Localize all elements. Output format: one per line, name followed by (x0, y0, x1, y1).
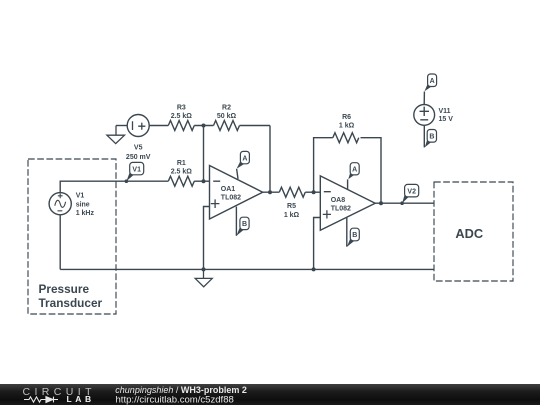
wire V1 top lead and row to R1 (60, 181, 168, 192)
svg-text:R3: R3 (177, 105, 186, 112)
svg-text:OA1: OA1 (221, 186, 236, 193)
wire OA8 A-flag pin stub (347, 179, 349, 189)
svg-text:R2: R2 (222, 105, 231, 112)
wire OA8 B-flag pin stub (346, 218, 348, 247)
supply flag B at V11 (425, 130, 437, 148)
junction node ground rail at OA8 (312, 267, 316, 271)
dashed box Pressure Transducer (28, 159, 116, 314)
svg-text:1 kHz: 1 kHz (76, 210, 95, 217)
svg-text:Transducer: Transducer (39, 296, 103, 310)
wire OA1 output to R5 (263, 191, 280, 193)
svg-text:V11: V11 (439, 108, 451, 115)
voltage source V1 circle (sine) (49, 193, 71, 215)
svg-text:A: A (242, 155, 247, 162)
wire V5 left lead (116, 125, 127, 127)
junction node OA8 inverting input (312, 190, 316, 194)
svg-text:R1: R1 (177, 160, 186, 167)
op-amp OA8 input polarity marks (323, 192, 331, 219)
svg-text:R6: R6 (342, 114, 351, 121)
junction node ground rail at OA1 (202, 267, 206, 271)
voltage source V5 circle (127, 115, 149, 137)
svg-text:R5: R5 (287, 203, 296, 210)
svg-text:B: B (242, 221, 247, 228)
junction node R1/summing (202, 179, 206, 183)
resistor R5 (279, 187, 305, 197)
svg-text:sine: sine (76, 201, 90, 208)
wire R2 to feedback corner (240, 125, 271, 127)
svg-text:V2: V2 (407, 188, 416, 195)
svg-text:250 mV: 250 mV (126, 154, 151, 161)
junction node OA1 output (268, 190, 272, 194)
wire V11 top stub (423, 92, 425, 105)
svg-text:A: A (430, 78, 435, 85)
dashed box ADC (434, 182, 513, 281)
footer bar (0, 384, 540, 405)
svg-text:ADC: ADC (455, 226, 483, 241)
svg-text:V5: V5 (134, 145, 143, 152)
wire feedback down to OA1 output (269, 126, 271, 193)
svg-text:TL082: TL082 (331, 205, 351, 212)
wire V11 bottom stub (423, 125, 425, 147)
svg-text:OA8: OA8 (331, 197, 346, 204)
wire V1 bottom lead (59, 215, 61, 270)
resistor R1 (168, 176, 194, 186)
wire R5 to OA8 inverting input (305, 191, 320, 193)
wire R1 to OA1 inverting input (194, 180, 209, 182)
ground at V5 (107, 126, 125, 144)
wire OA8 output to ADC (375, 202, 434, 204)
wire R6 feedback right leg (361, 138, 382, 204)
wire OA1 A-flag pin stub (237, 169, 238, 179)
op-amp OA8 (320, 176, 375, 230)
svg-text:2.5 kΩ: 2.5 kΩ (171, 168, 193, 175)
supply flag A at OA1 (237, 151, 250, 168)
wire OA8 noninverting input to ground rail (314, 218, 321, 270)
op-amp OA1 input polarity marks (211, 181, 220, 208)
junction node R3/R2 (202, 124, 206, 128)
svg-text:LAB: LAB (67, 394, 95, 404)
resistor R2 (214, 121, 240, 131)
wire OA1 B-flag pin stub (235, 207, 237, 236)
wire R6 feedback left leg (314, 138, 333, 193)
svg-text:50 kΩ: 50 kΩ (217, 113, 237, 120)
node flag V2 (400, 184, 418, 205)
svg-text:V1: V1 (76, 192, 85, 199)
svg-text:http://circuitlab.com/c5zdf88: http://circuitlab.com/c5zdf88 (116, 394, 234, 405)
resistor R3 (168, 121, 194, 131)
voltage source V5 polarity marks (133, 121, 146, 130)
svg-text:15 V: 15 V (439, 116, 454, 123)
voltage source V11 circle (414, 105, 435, 126)
node flag V1 (125, 162, 144, 183)
svg-text:B: B (429, 134, 434, 141)
svg-text:2.5 kΩ: 2.5 kΩ (171, 113, 193, 120)
voltage source V1 sine wave and polarity (55, 193, 66, 210)
wire summing node vertical (203, 126, 205, 182)
resistor R6 (333, 133, 359, 143)
svg-text:1 kΩ: 1 kΩ (339, 123, 355, 130)
supply flag A at OA8 (348, 163, 359, 180)
svg-text:A: A (352, 166, 357, 173)
wire bottom ground rail (60, 268, 434, 270)
junction node OA8 output (379, 201, 383, 205)
supply flag B at OA8 (347, 228, 359, 247)
supply flag B at OA1 (237, 217, 250, 236)
logo circuit squiggle (24, 397, 58, 403)
svg-text:V1: V1 (132, 166, 141, 173)
svg-text:B: B (352, 232, 357, 239)
svg-text:1 kΩ: 1 kΩ (284, 212, 300, 219)
wire R3 to R2 (194, 125, 213, 127)
svg-text:TL082: TL082 (221, 194, 241, 201)
op-amp OA1 (210, 166, 263, 220)
main ground symbol (195, 269, 212, 286)
voltage source V11 polarity marks (420, 107, 430, 120)
wire V5 to R3 (149, 125, 168, 127)
supply flag A at V11 (425, 74, 437, 91)
wire OA1 noninverting input to ground rail (204, 207, 210, 270)
svg-text:Pressure: Pressure (39, 282, 90, 296)
